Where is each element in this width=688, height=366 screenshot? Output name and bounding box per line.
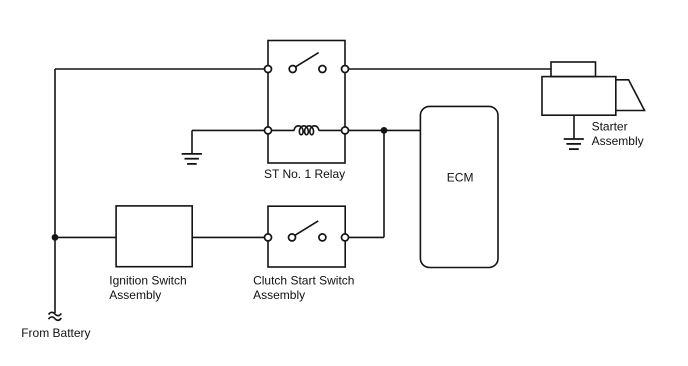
wire: battery bus to ignition switch — [55, 236, 116, 238]
switch lever in relay — [295, 53, 319, 68]
svg-text:ECM: ECM — [447, 171, 474, 185]
svg-text:From Battery: From Battery — [21, 326, 90, 340]
starter nose trapezoid — [616, 80, 645, 111]
svg-text:Assembly: Assembly — [109, 288, 161, 302]
wire: relay coil lead right — [319, 129, 345, 131]
junction node (relay coil / ECM / clutch) — [381, 127, 388, 134]
wire: left vertical battery bus — [54, 69, 56, 313]
relay pin terminal circle (coil in, box edge) — [265, 127, 272, 134]
svg-text:Assembly: Assembly — [253, 288, 305, 302]
starter solenoid terminal rect — [551, 62, 596, 77]
relay switch fixed contact circle — [319, 66, 326, 73]
svg-text:Starter: Starter — [592, 120, 628, 134]
ignition switch box — [116, 206, 192, 267]
starter main body rect — [542, 77, 616, 116]
svg-text:Ignition Switch: Ignition Switch — [109, 273, 186, 287]
wire: clutch switch to vertical node — [345, 236, 384, 238]
relay pin terminal circle (switch out, box edge) — [342, 66, 349, 73]
svg-text:Clutch Start Switch: Clutch Start Switch — [253, 273, 354, 287]
switch lever in clutch switch — [295, 221, 319, 236]
relay switch movable contact circle — [289, 66, 296, 73]
ground symbol (relay coil ground) — [191, 130, 193, 153]
relay pin terminal circle (switch in, box edge) — [265, 66, 272, 73]
break symbol (from battery) — [49, 312, 62, 315]
relay box (ST No. 1 Relay) — [268, 41, 345, 164]
clutch switch terminal circle (box edge left) — [265, 234, 272, 241]
svg-text:ST No. 1 Relay: ST No. 1 Relay — [264, 167, 345, 181]
relay coil L — [294, 126, 319, 135]
wire: relay switch to starter — [345, 68, 551, 70]
clutch switch movable contact circle — [289, 234, 296, 241]
wire: battery feed top horizontal — [55, 68, 268, 70]
wire: ignition switch to clutch switch — [192, 236, 268, 238]
ground symbol (starter ground) — [573, 115, 575, 138]
wire: relay coil to ECM — [345, 129, 420, 131]
wire: relay coil lead left — [268, 129, 294, 131]
ECM box — [420, 106, 498, 267]
clutch switch fixed contact circle — [319, 234, 326, 241]
clutch start switch box — [268, 206, 345, 267]
wire: ground to relay coil — [192, 129, 268, 131]
wire: vertical node drop to clutch switch — [383, 130, 385, 237]
junction node (battery bus / ignition) — [52, 234, 59, 241]
relay pin terminal circle (coil out, box edge) — [342, 127, 349, 134]
svg-text:Assembly: Assembly — [592, 134, 644, 148]
clutch switch terminal circle (box edge right) — [342, 234, 349, 241]
